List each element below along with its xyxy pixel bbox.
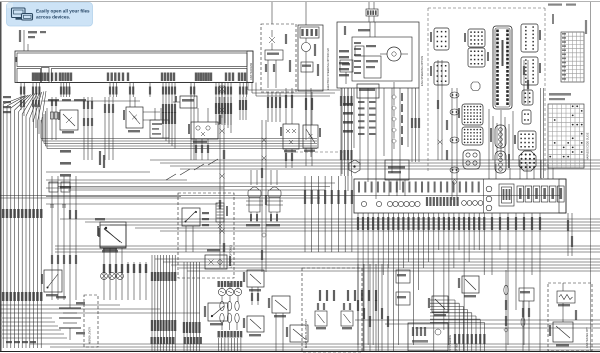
fuse chain right — [504, 270, 508, 352]
fuse row under ignition — [103, 262, 147, 300]
diamond junction column — [392, 82, 397, 149]
connector footprint box — [408, 323, 448, 351]
small boxes 395 — [396, 270, 410, 305]
left component chains 52-76 — [49, 176, 77, 240]
terminal strip left — [151, 337, 202, 344]
steering box bottom wires — [306, 88, 408, 199]
relay module R2b — [303, 125, 321, 166]
connector J4 12pin — [430, 28, 449, 50]
left drops to bundle — [20, 97, 40, 134]
table side label — [587, 132, 590, 160]
5V regulator box — [173, 96, 197, 108]
sensor module grid — [357, 84, 379, 135]
lamp trio — [101, 273, 124, 280]
machine ECM connector — [493, 26, 512, 109]
bottom-left horizontal wires — [2, 318, 67, 338]
svg-text:MONO-LEVER: MONO-LEVER — [89, 327, 92, 344]
svg-text:OPTION: OPTION — [457, 343, 459, 352]
connector J7 grid — [468, 48, 489, 67]
fuel sender chain — [446, 88, 459, 200]
left horizontals 170-205 — [46, 172, 224, 204]
sheet top border — [0, 1, 600, 3]
battery group — [56, 296, 85, 340]
cab box top feed wires — [489, 160, 553, 179]
relay module R1 — [188, 108, 218, 160]
connector J9 — [521, 57, 541, 85]
sheet right border — [590, 2, 592, 352]
diamond labels right — [401, 93, 403, 145]
tall label columns center spine — [215, 97, 247, 125]
cab box drop wires — [357, 213, 541, 236]
sender unit right — [266, 187, 283, 226]
connector J5 12pin — [430, 62, 449, 85]
relay box BR1 — [428, 296, 448, 316]
relay feed label columns — [267, 88, 313, 125]
staircase bends — [166, 159, 218, 180]
center long wire pair — [219, 97, 225, 268]
ignition switch box — [97, 222, 126, 262]
mono-lever option box — [84, 295, 98, 347]
left bundle labels upper — [2, 209, 43, 218]
svg-text:CAB HARNESS: CAB HARNESS — [250, 62, 253, 80]
relay box mid-left2 — [123, 97, 160, 132]
harness drop wires — [20, 83, 248, 98]
steering module verticals — [340, 88, 353, 176]
labels above harness box — [19, 30, 46, 51]
right panel feed wires — [489, 109, 513, 160]
radio label column — [99, 151, 105, 168]
horizontals 90-96 center — [248, 83, 340, 97]
svg-text:ELECTRIC STEERING OPTION 1/2: ELECTRIC STEERING OPTION 1/2 — [326, 48, 330, 90]
toast devices icon — [12, 8, 33, 20]
top right small chain — [523, 60, 529, 104]
cab steering inner marks — [354, 42, 376, 74]
wiper switch box — [204, 303, 228, 325]
electric steering option label — [326, 48, 330, 90]
table headers — [549, 93, 571, 100]
splice hourglass top — [219, 83, 225, 98]
svg-text:across devices.: across devices. — [36, 15, 70, 20]
wire labels bottom mid — [319, 290, 377, 301]
bundle mid2 labels — [183, 262, 201, 352]
svg-text:ENG STEERING OPTION: ENG STEERING OPTION — [420, 56, 424, 86]
headlight switch box — [182, 208, 209, 252]
fuse chain C — [104, 97, 114, 160]
upper mid labels row2 — [162, 104, 176, 113]
svg-text:HARNESS CODE GUIDE: HARNESS CODE GUIDE — [587, 132, 590, 160]
electric steering option box — [298, 25, 323, 91]
dot connector big — [458, 104, 483, 125]
fuse link ovals — [220, 301, 239, 330]
float area verticals — [357, 264, 389, 352]
octagon dense connector — [519, 151, 536, 171]
dot connector big2 — [462, 127, 483, 145]
cab box drop wires lower — [358, 236, 540, 352]
heater option dashed box — [548, 283, 592, 351]
sender feed wires — [251, 170, 277, 185]
pot steering labels — [450, 335, 459, 352]
round connector 4pin — [463, 150, 480, 169]
flasher relay box — [205, 249, 231, 269]
mid horizontals 320-340 right — [355, 320, 600, 328]
bus lines upper mid — [41, 108, 317, 149]
main harness box J1 — [15, 51, 253, 83]
upper mid tall labels — [162, 112, 176, 124]
top wires to border — [272, 2, 374, 25]
relay box BC1 — [243, 270, 264, 305]
bend bundle bottom right — [430, 300, 486, 352]
wire code table 2 — [548, 104, 584, 168]
sheet left border — [0, 2, 2, 352]
terminal strip lamps bottom — [218, 331, 243, 352]
notification toast panel — [7, 3, 93, 27]
wire pair 437 — [437, 60, 443, 160]
relay module R2a — [280, 124, 299, 168]
relay box BC2 — [243, 316, 264, 336]
lower-left switch set — [51, 240, 77, 300]
connector J8 — [521, 24, 541, 52]
svg-text:CAB HEATER OPT: CAB HEATER OPT — [586, 327, 589, 348]
cab steering option box — [337, 22, 419, 88]
cab feed wires left labels — [304, 176, 353, 252]
diode pack — [95, 218, 126, 250]
fuel labels column — [343, 103, 353, 133]
upper mid verticals — [163, 97, 231, 160]
small box above fuel — [340, 60, 353, 84]
left bundle labels lower — [2, 292, 43, 301]
bottom-left label cluster — [6, 341, 36, 343]
terminal strip lamps top — [218, 281, 243, 287]
accelerator pedal box — [385, 160, 409, 196]
oval connector 4pin B — [495, 151, 510, 173]
mid-left labels column — [60, 150, 71, 189]
component chain A — [51, 97, 58, 140]
bus lines bottom — [0, 305, 200, 313]
hex plug — [349, 160, 360, 173]
svg-text:FLOAT MDS-3/L ASSY OPT: FLOAT MDS-3/L ASSY OPT — [305, 319, 308, 348]
eng steering verticals — [411, 88, 420, 162]
connector 4pin tiny — [522, 110, 531, 124]
octagon connector small — [471, 82, 480, 91]
long vertical pair 262 — [261, 120, 267, 272]
bus line 195 — [0, 196, 560, 199]
sender unit left — [246, 187, 263, 226]
lh assy option dashed box — [178, 193, 234, 278]
bus lines mid a — [150, 160, 600, 169]
connector 16pin — [514, 131, 536, 150]
svg-text:POT STEERING: POT STEERING — [450, 335, 452, 352]
relay box HD — [58, 110, 78, 133]
relay box R-right — [458, 276, 479, 297]
bundle mid labels — [151, 255, 177, 352]
bus lines 258-272 — [155, 259, 600, 271]
relay box BC4 — [286, 325, 308, 342]
bus lines 246-252 — [55, 246, 600, 252]
dimmer resistor — [216, 203, 228, 244]
steering option dashed box — [261, 24, 296, 92]
toast text — [36, 8, 90, 19]
relay box BC3 — [268, 296, 290, 352]
svg-text:Easily open all your files: Easily open all your files — [36, 8, 90, 13]
diode boxes pair — [315, 303, 353, 329]
note labels top right — [548, 4, 576, 6]
steering top connectors — [366, 9, 378, 22]
key switch box bottomleft — [41, 270, 62, 296]
right-mid chain — [541, 14, 588, 178]
option dashed line y152 — [295, 151, 345, 153]
wire code table 1 — [561, 32, 584, 82]
cab interface long box — [354, 179, 566, 213]
prop valve label row — [42, 99, 140, 101]
component group 520 — [519, 288, 534, 352]
connector panel dashed frame — [428, 8, 545, 172]
left edge label stack — [3, 96, 11, 113]
float option dashed box — [302, 268, 362, 352]
bus lines 218-232 — [60, 219, 600, 231]
harness box pin labels — [32, 73, 246, 82]
bus lines bottom edge — [30, 344, 600, 350]
sheet bottom border — [0, 351, 600, 353]
connector J6 grid — [464, 29, 485, 47]
bus lines 182-192 — [48, 183, 335, 190]
eng steering option label — [420, 56, 424, 86]
component chain B — [83, 97, 93, 160]
module box 150 — [150, 108, 169, 138]
oval connector 4pin A — [490, 125, 506, 148]
gauge cluster lamps — [218, 283, 241, 302]
connector 6pin small — [522, 90, 533, 105]
cab box right end wires — [567, 213, 573, 256]
left wire bundle — [3, 91, 46, 348]
